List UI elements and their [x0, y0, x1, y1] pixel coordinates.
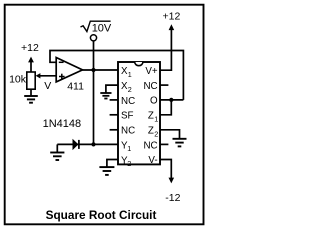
- svg-text:+12: +12: [21, 42, 39, 54]
- svg-text:SF: SF: [121, 111, 134, 122]
- ground (pot): [24, 96, 38, 103]
- svg-text:2: 2: [127, 159, 131, 168]
- svg-text:10V: 10V: [92, 22, 112, 34]
- pin tick NC left 3: [110, 99, 118, 101]
- svg-text:2: 2: [154, 129, 158, 138]
- junction: diode node: [91, 142, 95, 146]
- pin X2 label: [121, 81, 132, 94]
- svg-text:2: 2: [128, 85, 132, 94]
- svg-text:Square Root Circuit: Square Root Circuit: [46, 208, 157, 222]
- svg-text:NC: NC: [143, 140, 157, 151]
- wire: O pin to feedback corner: [160, 99, 183, 101]
- wire: X2 to ground: [106, 85, 118, 93]
- wire: Y2 to ground: [107, 160, 118, 167]
- svg-text:-12: -12: [165, 192, 180, 204]
- svg-text:NC: NC: [121, 126, 135, 137]
- pin Y1 label: [121, 140, 131, 153]
- wire: op-amp output to X1: [83, 69, 119, 71]
- svg-text:Z: Z: [148, 111, 154, 122]
- svg-text:1: 1: [154, 115, 158, 124]
- wire: pot bottom to ground: [30, 89, 32, 96]
- pin tick SF: [110, 114, 118, 116]
- svg-text:1: 1: [128, 70, 132, 79]
- wire: V- to -12: [160, 160, 171, 179]
- pin Z1 label: [148, 111, 158, 124]
- pin tick NC right 6: [160, 143, 168, 145]
- wire: V+ to +12: [160, 30, 171, 71]
- ground (X2): [100, 93, 111, 99]
- diode D1 1N4148: [43, 118, 82, 149]
- svg-text:O: O: [150, 96, 158, 107]
- wire: diode anode to ground: [56, 144, 58, 152]
- wire: diode row (ground to Y1): [57, 143, 118, 145]
- op-amp U1 411: [56, 58, 84, 93]
- svg-text:V-: V-: [148, 155, 157, 166]
- supply -12: [165, 178, 180, 204]
- wire: terminal down through output node to diode node: [93, 41, 95, 144]
- pin tick NC left 5: [110, 129, 118, 131]
- pin tick NC right 2: [160, 84, 168, 86]
- ground (diode): [50, 153, 64, 161]
- wire: O node to Z1: [160, 100, 171, 115]
- junction: O node: [169, 98, 173, 102]
- svg-text:V: V: [44, 80, 51, 92]
- svg-text:+12: +12: [162, 11, 180, 23]
- svg-text:411: 411: [67, 80, 84, 92]
- terminal sqrt(10V): [81, 21, 112, 41]
- svg-text:NC: NC: [143, 81, 157, 92]
- wire: Z2 to ground: [160, 130, 180, 139]
- svg-text:NC: NC: [121, 96, 135, 107]
- ground (Y2): [99, 167, 114, 175]
- svg-text:10k: 10k: [9, 73, 27, 85]
- potentiometer R1 10k: [9, 72, 56, 89]
- pin X1 label: [121, 66, 132, 79]
- pin Y2 label: [121, 155, 131, 168]
- IC U2 multiplier: [118, 62, 160, 164]
- pin Z2 label: [148, 126, 158, 139]
- junction: output node: [91, 68, 95, 72]
- ground (Z2): [173, 139, 187, 147]
- svg-text:Z: Z: [148, 126, 154, 137]
- svg-text:1: 1: [127, 144, 131, 153]
- supply +12 (V+): [162, 11, 180, 31]
- supply +12 (potentiometer top): [21, 42, 39, 72]
- svg-text:1N4148: 1N4148: [43, 118, 82, 130]
- svg-text:V+: V+: [145, 66, 158, 77]
- wire: feedback loop (minus input to O pin): [50, 51, 183, 100]
